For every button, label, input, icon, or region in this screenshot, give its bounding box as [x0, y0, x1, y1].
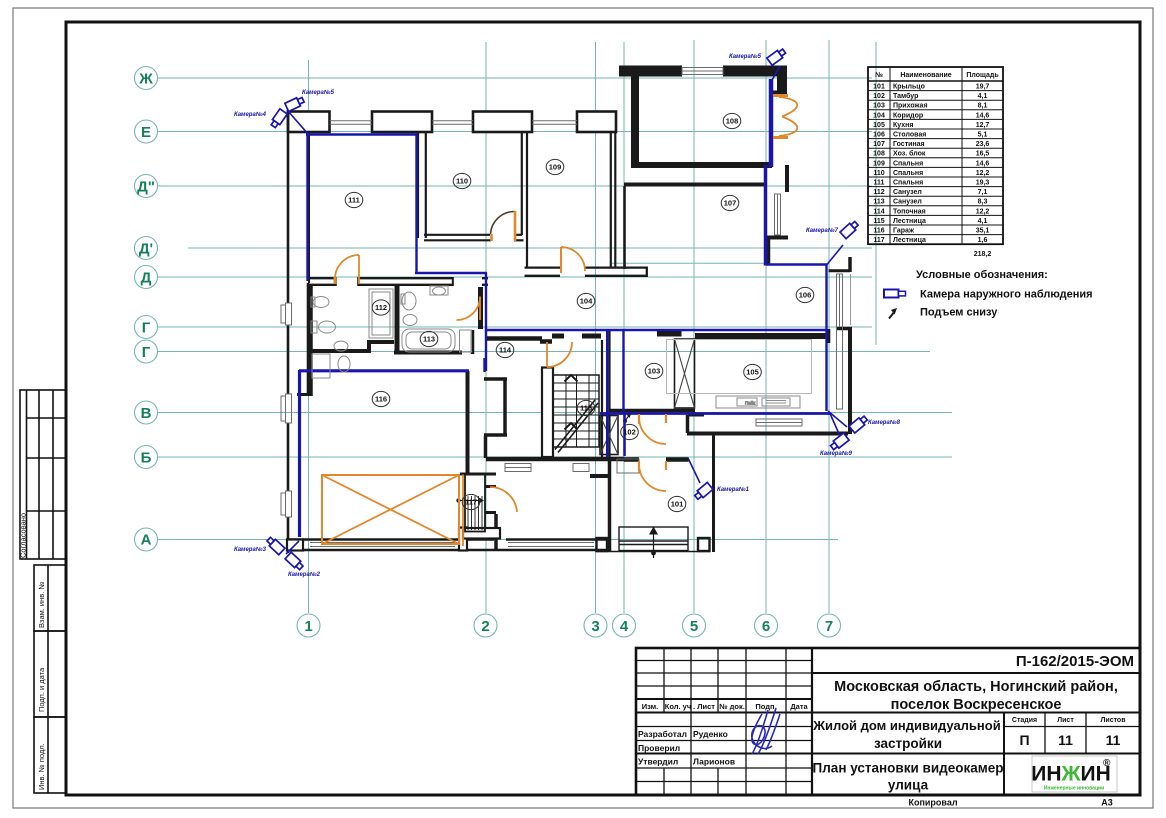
stair 117 box — [465, 475, 485, 532]
svg-text:101: 101 — [873, 84, 885, 91]
svg-text:Ларионов: Ларионов — [693, 757, 735, 767]
svg-text:Подп.: Подп. — [755, 702, 776, 711]
svg-text:Камера наружного наблюдения: Камера наружного наблюдения — [920, 289, 1093, 301]
navy axis4 vertical upper — [622, 331, 624, 414]
svg-text:111: 111 — [874, 180, 885, 187]
navy diag to cam 5R — [772, 66, 780, 80]
fixtures room 112 — [313, 297, 329, 308]
box Инв. № подл. — [34, 717, 66, 793]
navy tambour left vertical — [623, 414, 626, 456]
vent shaft left of tambour — [600, 416, 618, 455]
partition between rooms 111 and 110 (hollow) — [417, 132, 419, 238]
svg-text:104: 104 — [873, 112, 885, 119]
svg-text:11: 11 — [1106, 732, 1121, 748]
room 112 left wall — [308, 285, 313, 396]
svg-text:106: 106 — [873, 132, 885, 139]
stair arrow top — [565, 375, 578, 382]
wall below vent shaft — [610, 409, 695, 413]
navy diag to cam 8/9 — [828, 411, 847, 427]
passage walls right of garage — [484, 436, 488, 458]
logo INZHIN — [1031, 763, 1111, 786]
svg-text:А: А — [141, 532, 152, 549]
stair arrow bottom — [565, 423, 578, 430]
svg-text:А3: А3 — [1101, 798, 1113, 808]
svg-text:109: 109 — [873, 160, 885, 167]
room 110 closet bottom wall with door opening (hollow) — [424, 234, 490, 236]
marker podjem at tambour — [623, 412, 632, 424]
svg-text:1,6: 1,6 — [978, 237, 988, 244]
camera N5 symbol top-right — [767, 47, 787, 65]
svg-text:Площадь: Площадь — [966, 72, 999, 79]
door room 111 (axis Д wall) — [335, 255, 359, 279]
svg-text:218,2: 218,2 — [974, 251, 992, 258]
room 108 left wall — [631, 76, 639, 168]
svg-text:102: 102 — [623, 428, 636, 437]
room 114 boiler niche — [484, 377, 507, 381]
room 107 top wall — [624, 183, 765, 187]
axis bubbles bottom — [297, 614, 841, 637]
stair 115 box — [553, 375, 599, 447]
svg-text:Пайк: Пайк — [745, 400, 755, 406]
navy stair hall right — [606, 331, 608, 457]
svg-text:Камера№3: Камера№3 — [234, 546, 267, 553]
svg-text:Гостиная: Гостиная — [893, 141, 925, 148]
window north 3 — [532, 120, 577, 122]
svg-text:поселок Воскресенское: поселок Воскресенское — [891, 697, 1062, 713]
svg-text:Санузел: Санузел — [893, 199, 922, 206]
box Подп. и дата — [34, 631, 66, 717]
navy room 108 right wall — [769, 79, 774, 167]
door jambs right of room 117 — [485, 485, 496, 488]
room 112 closet — [369, 289, 393, 338]
svg-text:4,1: 4,1 — [978, 218, 988, 225]
svg-text:115: 115 — [873, 218, 884, 225]
window north 1 — [330, 120, 373, 122]
door stair hall from corridor — [547, 342, 572, 367]
room 103/105 block top walls — [657, 331, 682, 337]
svg-text:Столовая: Столовая — [893, 132, 926, 139]
svg-text:Д: Д — [141, 270, 152, 287]
svg-text:Ж: Ж — [138, 71, 153, 88]
navy room 111 right — [415, 134, 417, 273]
svg-text:П: П — [1019, 732, 1029, 748]
door garage passage — [490, 487, 517, 512]
svg-text:Лестница: Лестница — [893, 218, 926, 225]
svg-text:План установки видеокамер: План установки видеокамер — [813, 761, 1004, 776]
axis line Д2 — [157, 185, 872, 187]
svg-text:7,1: 7,1 — [978, 189, 988, 196]
svg-text:ИНЖИН: ИНЖИН — [1031, 763, 1111, 786]
south wall band of house — [286, 538, 494, 540]
west wall outer face with window gaps — [287, 109, 290, 303]
door 117 orange jamb — [462, 475, 464, 547]
bay east wall — [836, 327, 852, 331]
svg-text:35,1: 35,1 — [976, 228, 990, 235]
svg-text:105: 105 — [873, 122, 885, 129]
svg-text:Д": Д" — [137, 179, 155, 196]
corridor south wall pieces (axis Г) — [487, 336, 542, 341]
axis line А — [157, 539, 838, 541]
corridor west niche lines — [617, 459, 639, 473]
room 113 bottom wall — [394, 351, 462, 355]
svg-text:Инв. № подл.: Инв. № подл. — [37, 743, 46, 790]
svg-text:Хоз. блок: Хоз. блок — [893, 150, 926, 158]
window sill right of tambour — [756, 419, 802, 426]
svg-text:Камера№5: Камера№5 — [729, 53, 762, 60]
svg-text:П-162/2015-ЭОМ: П-162/2015-ЭОМ — [1016, 653, 1134, 670]
porch columns — [597, 538, 608, 551]
navy diag to cam 7 — [827, 245, 843, 265]
svg-text:Руденко: Руденко — [693, 729, 728, 739]
room 108 top wall band — [619, 66, 682, 77]
camera N8 symbol — [849, 415, 869, 433]
window south garage — [310, 542, 455, 544]
axis bubbles left — [135, 67, 158, 552]
svg-text:Тамбур: Тамбур — [893, 92, 918, 100]
axis line 5 — [693, 40, 695, 613]
navy axis2 vertical — [485, 273, 487, 371]
svg-text:Листов: Листов — [1100, 717, 1126, 724]
svg-text:Б: Б — [141, 450, 152, 467]
svg-text:104: 104 — [580, 297, 593, 306]
svg-text:105: 105 — [746, 368, 759, 377]
svg-text:Спальня: Спальня — [893, 160, 923, 167]
svg-text:Дата: Дата — [790, 702, 808, 711]
box Взам. инв. № — [34, 565, 66, 793]
window north 2 — [432, 120, 473, 122]
svg-text:Гараж: Гараж — [893, 228, 915, 235]
svg-text:Стадия: Стадия — [1012, 717, 1037, 724]
camera N5 symbol left — [285, 96, 305, 112]
camera N3 symbol — [266, 536, 285, 555]
svg-text:114: 114 — [873, 208, 884, 215]
camera labels — [234, 53, 901, 578]
kitchen counter room 105 — [716, 396, 800, 408]
svg-text:®: ® — [1103, 758, 1111, 769]
camera N9 symbol — [829, 433, 849, 451]
stage table texts — [1012, 717, 1126, 724]
room 108 right pillar — [777, 66, 787, 92]
svg-text:Подп. и дата: Подп. и дата — [37, 667, 46, 712]
svg-text:114: 114 — [499, 346, 512, 355]
svg-text:8,3: 8,3 — [978, 199, 988, 206]
svg-text:7: 7 — [825, 618, 833, 635]
svg-text:117: 117 — [873, 237, 884, 244]
svg-text:108: 108 — [726, 117, 739, 126]
svg-text:Прихожая: Прихожая — [893, 103, 928, 110]
stair diagonal — [555, 400, 595, 450]
partition 113/corridor east — [478, 287, 483, 329]
svg-text:Камера№4: Камера№4 — [234, 111, 267, 118]
svg-text:Камера№5: Камера№5 — [302, 89, 335, 96]
svg-text:4,1: 4,1 — [978, 93, 988, 100]
axis line 4 — [623, 42, 625, 613]
navy diag to cam 1 — [688, 458, 700, 483]
stair well left wall — [542, 368, 553, 458]
navy axis Г horizontal — [486, 329, 826, 331]
svg-text:1: 1 — [304, 618, 312, 635]
navy room 111 left — [306, 133, 308, 281]
svg-text:5,1: 5,1 — [978, 132, 988, 139]
svg-text:11: 11 — [1058, 732, 1073, 748]
svg-text:Кол. уч: Кол. уч — [665, 702, 691, 711]
axis line 6 — [765, 40, 767, 613]
svg-text:Согласовано: Согласовано — [19, 513, 28, 558]
svg-text:109: 109 — [549, 163, 562, 172]
room 108 bottom wall — [631, 162, 772, 168]
svg-text:4: 4 — [620, 618, 629, 635]
porch 101 walls — [590, 474, 611, 478]
navy corridor link 111-112 — [415, 272, 487, 274]
room 109 bottom wall with door opening (hollow) — [525, 266, 561, 268]
svg-text:19,3: 19,3 — [976, 180, 990, 187]
axis line Б — [157, 456, 952, 458]
aux horizontal line near bay — [612, 262, 766, 264]
south wall of stair hall with windows — [486, 457, 624, 462]
svg-text:Условные обозначения:: Условные обозначения: — [916, 269, 1048, 281]
svg-text:Спальня: Спальня — [893, 180, 923, 187]
svg-text:107: 107 — [724, 199, 737, 208]
svg-text:Копировал: Копировал — [908, 798, 957, 808]
camera N2 symbol — [285, 552, 304, 571]
axis line Е — [157, 131, 872, 133]
door room 108 french lower — [779, 117, 797, 137]
room 107 closet walls — [623, 186, 626, 269]
svg-text:Крыльцо: Крыльцо — [893, 84, 925, 91]
svg-text:застройки: застройки — [874, 736, 942, 751]
fixtures room 113 — [402, 329, 455, 352]
legend podjem symbol — [889, 308, 897, 319]
stage table — [1003, 713, 1005, 796]
svg-text:5: 5 — [690, 618, 698, 635]
svg-text:116: 116 — [873, 228, 884, 235]
room 111/112 bottom wall (axis Д) with door openings, hollow — [307, 277, 335, 279]
window south porch side — [508, 542, 594, 544]
svg-text:№ док.: № док. — [719, 702, 745, 711]
svg-text:Топочная: Топочная — [893, 208, 926, 215]
door porch to house — [639, 464, 666, 491]
window bay east lower — [837, 274, 843, 409]
svg-text:№: № — [875, 71, 883, 79]
svg-text:102: 102 — [873, 93, 885, 100]
axis line 7 — [828, 40, 830, 613]
door room 113 — [457, 297, 481, 321]
svg-text:Камера№9: Камера№9 — [820, 450, 853, 457]
svg-text:107: 107 — [873, 141, 885, 148]
svg-text:12,2: 12,2 — [976, 208, 990, 215]
axis line 2 — [485, 42, 487, 613]
svg-text:Камера№8: Камера№8 — [868, 419, 901, 426]
axis line Ж — [157, 77, 872, 79]
tambour 102 walls — [688, 413, 704, 417]
navy bath right top piece — [483, 358, 485, 372]
svg-text:Санузел: Санузел — [893, 189, 922, 196]
svg-text:113: 113 — [873, 199, 884, 206]
svg-text:113: 113 — [423, 335, 435, 344]
navy axis В horizontal — [600, 412, 830, 415]
camera N7 symbol — [840, 220, 859, 239]
logo box — [1032, 756, 1117, 792]
svg-text:Жилой дом индивидуальной: Жилой дом индивидуальной — [812, 718, 1000, 733]
svg-text:Взам. инв. №: Взам. инв. № — [37, 582, 46, 628]
window west 2 — [286, 491, 292, 517]
svg-text:Проверил: Проверил — [638, 743, 680, 753]
porch entrance steps — [619, 527, 688, 559]
svg-text:12,7: 12,7 — [976, 122, 990, 129]
svg-text:111: 111 — [348, 196, 360, 205]
signature scribble — [752, 708, 780, 754]
room 112 bottom step walls — [367, 340, 394, 344]
svg-text:115: 115 — [580, 404, 592, 413]
aux vertical line — [875, 42, 877, 345]
header texts — [642, 702, 809, 711]
navy garage top — [299, 369, 469, 372]
navy room 111 top — [306, 133, 417, 135]
partition between 112 and 113 — [395, 285, 400, 352]
svg-text:6: 6 — [762, 618, 770, 635]
garage east wall — [466, 371, 470, 474]
svg-text:117: 117 — [465, 498, 477, 507]
navy room 107 right wall — [764, 165, 768, 266]
svg-text:Д': Д' — [139, 241, 153, 258]
svg-text:23,6: 23,6 — [976, 141, 990, 148]
svg-text:16,5: 16,5 — [976, 151, 990, 158]
svg-text:108: 108 — [873, 151, 885, 158]
stair treads — [553, 383, 599, 439]
svg-text:103: 103 — [873, 103, 885, 110]
svg-text:12,2: 12,2 — [976, 170, 990, 177]
svg-text:112: 112 — [873, 189, 884, 196]
vent shaft between 103 and 105 — [675, 339, 695, 408]
window west 1 — [286, 394, 292, 423]
stair hall right wall (hollow) — [601, 340, 603, 457]
room 105 finish outline — [667, 340, 812, 394]
door room 109 — [561, 247, 585, 271]
svg-text:Коридор: Коридор — [893, 112, 923, 119]
svg-text:улица: улица — [888, 778, 929, 793]
svg-text:Лист: Лист — [1057, 717, 1074, 724]
right part rows — [812, 672, 1140, 674]
partition between room 110 closet and 109 (hollow) — [521, 131, 523, 235]
svg-text:Камера№2: Камера№2 — [288, 571, 321, 578]
svg-text:8,1: 8,1 — [978, 103, 988, 110]
svg-text:116: 116 — [375, 395, 387, 404]
window bay east upper — [775, 194, 781, 235]
axis line 3 — [595, 42, 597, 613]
svg-text:103: 103 — [648, 367, 661, 376]
north wall pier boxes (hollow) — [288, 112, 330, 133]
window west 0 — [286, 303, 292, 325]
garage cross box — [322, 475, 459, 544]
bay north-east wall pieces — [785, 165, 789, 192]
navy diag to cam 2/3 — [286, 541, 299, 554]
window sill below stair hall 2 — [573, 464, 589, 472]
svg-text:Подъем снизу: Подъем снизу — [920, 307, 998, 319]
window room 108 top — [682, 68, 723, 75]
axis line В — [157, 412, 952, 414]
svg-text:101: 101 — [671, 500, 684, 509]
svg-text:Наименование: Наименование — [900, 72, 951, 79]
navy garage left — [298, 370, 301, 537]
axis line Г — [157, 326, 872, 328]
axis line Д1 — [188, 247, 872, 249]
svg-text:106: 106 — [799, 291, 812, 300]
window sill below stair hall 1 — [505, 464, 531, 472]
svg-text:110: 110 — [456, 177, 468, 186]
svg-text:110: 110 — [873, 170, 884, 177]
entrance arrow — [653, 532, 655, 558]
camera N1 symbol — [693, 482, 713, 500]
left row lines — [636, 661, 812, 782]
svg-text:Камера№1: Камера№1 — [717, 486, 750, 493]
svg-text:Московская область, Ногинский: Московская область, Ногинский район, — [834, 679, 1118, 695]
svg-text:Г: Г — [142, 344, 151, 361]
svg-text:19,7: 19,7 — [976, 84, 990, 91]
left columns — [664, 648, 786, 795]
legend camera symbol — [884, 290, 906, 298]
svg-text:Г: Г — [142, 320, 151, 337]
svg-text:2: 2 — [481, 618, 489, 635]
west wall inner face — [308, 131, 310, 283]
svg-text:. Лист: . Лист — [693, 702, 715, 711]
camera N4 symbol — [270, 109, 288, 129]
svg-text:3: 3 — [591, 618, 599, 635]
svg-text:Спальня: Спальня — [893, 170, 923, 177]
svg-text:Утвердил: Утвердил — [638, 757, 678, 767]
room 113 right closet wall — [471, 330, 475, 354]
svg-text:Инженерные инновации: Инженерные инновации — [1044, 786, 1104, 792]
left sidebar: approval table — [20, 390, 66, 559]
door room 110 closet — [491, 211, 516, 234]
east wall of room 109 (hollow) — [610, 131, 612, 268]
svg-text:Е: Е — [141, 124, 151, 141]
svg-text:14,6: 14,6 — [976, 112, 990, 119]
svg-text:Разработал: Разработал — [638, 729, 687, 739]
svg-text:14,6: 14,6 — [976, 160, 990, 167]
svg-text:Кухня: Кухня — [893, 122, 913, 129]
door tambour — [639, 417, 666, 444]
svg-text:112: 112 — [375, 303, 387, 312]
svg-text:Изм.: Изм. — [642, 702, 659, 711]
axis line Д — [157, 276, 872, 278]
south wall right of porch — [687, 432, 848, 436]
navy bay west vertical — [825, 265, 827, 412]
axis line 1 — [308, 60, 310, 613]
navy diag to cam 4/5 — [288, 111, 308, 134]
door room 108 french upper — [779, 97, 797, 117]
marker podjem at 117 — [456, 497, 484, 504]
svg-text:Камера№7: Камера№7 — [806, 227, 839, 234]
navy bay top — [766, 263, 827, 266]
axis line Г2 — [157, 351, 930, 353]
svg-text:В: В — [141, 405, 152, 422]
svg-text:Лестница: Лестница — [893, 237, 926, 244]
